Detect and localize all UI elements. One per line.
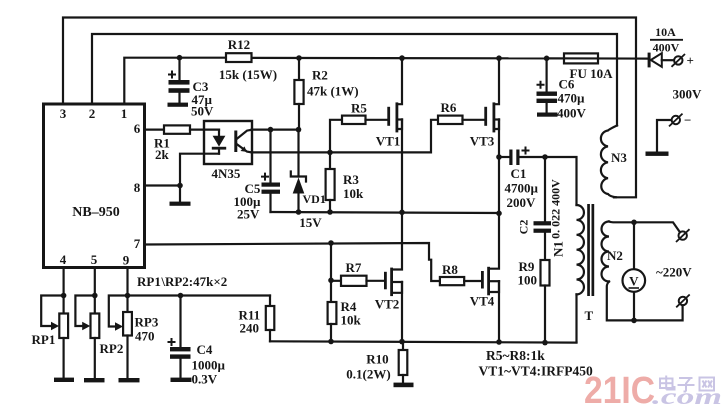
svg-text:C4: C4 [197,342,213,357]
svg-text:C2: C2 [517,220,531,235]
node pin9/RP3 wiper [125,293,131,299]
svg-text:10A: 10A [655,25,676,39]
ground at pin 8 [170,186,191,206]
potentiometer RP3 [109,296,132,379]
svg-text:R2: R2 [312,68,328,83]
resistor R6 [438,116,484,124]
ground bar under C3 [168,103,189,107]
potentiometer RP1 [41,296,68,378]
capacitor C5 [261,130,280,212]
node N2 top / voltmeter [631,220,637,226]
node pin4/RP1 wiper [61,293,67,299]
node rail/C6 junction [544,56,550,62]
svg-text:~220V: ~220V [656,265,692,280]
wire R1 to 4N35 LED anode [190,129,219,131]
node rail/VT2 source/R10 [399,339,405,345]
node C1 right / snubber [542,154,548,160]
watermark CJK dian [660,376,675,390]
node rail/R4 [328,339,334,345]
wire pin 6 to R1 [145,129,165,131]
svg-text:R10: R10 [366,352,388,367]
capacitor C2 [534,157,552,260]
MOSFET VT4 [481,213,499,341]
wire pin 5 [94,268,96,314]
node mid/VD1 [296,209,302,215]
svg-text:R5~R8:1k: R5~R8:1k [486,348,545,363]
resistor R2 [294,58,303,130]
wire 4N35 LED cathode to pin 8 [180,154,219,186]
svg-text:21IC: 21IC [584,370,655,412]
node rail/VT1 drain junction [399,55,405,61]
wire 4N35 emitter to gates of VT1/VT3 [252,120,439,153]
wire pin 9 [126,268,128,313]
svg-text:R5: R5 [351,101,367,116]
svg-text:470µ: 470µ [558,91,586,106]
diode VD output [648,53,674,68]
node rail/R2 junction [296,55,302,61]
ground bar RP1 [54,378,74,382]
wire - terminal to ground [657,120,672,152]
wire C1 to N1 top [545,157,577,205]
ground bar at - terminal [646,152,669,156]
svg-text:9: 9 [123,253,130,268]
wire bottom common rail [270,341,577,342]
node mid/VT3 source [496,211,502,217]
svg-text:0.3V: 0.3V [192,372,218,387]
svg-text:VT4: VT4 [470,294,495,309]
svg-text:R3: R3 [343,172,359,187]
resistor R9 [541,260,550,343]
ground bar under R10 [394,383,414,388]
svg-text:3: 3 [60,106,67,121]
svg-text:15V: 15V [299,215,322,230]
ground bar RP3 [119,378,140,382]
svg-text:100: 100 [518,273,538,288]
node pin5/RP2 wiper [92,293,98,299]
svg-text:15k (15W): 15k (15W) [219,67,277,82]
wire branch down to R7/R4 [330,243,332,280]
svg-text:4: 4 [60,252,67,267]
phototransistor inside 4N35 [234,130,251,153]
node N2 bottom / voltmeter [631,318,637,324]
svg-text:8: 8 [134,180,141,195]
svg-text:N1: N1 [551,241,566,257]
svg-text:470: 470 [135,329,155,344]
wire pin 8 [145,184,181,186]
IC U1 NB-950 [44,104,145,268]
svg-text:.com: .com [652,384,722,409]
capacitor C1 [499,147,545,166]
watermark CJK wang [700,378,715,391]
svg-text:C1: C1 [511,166,527,181]
node rail/R9 [542,340,548,346]
svg-text:50V: 50V [191,104,214,119]
capacitor C6 [537,58,558,112]
svg-text:NB–950: NB–950 [72,205,119,220]
winding N3 [601,126,617,198]
svg-text:VD1: VD1 [303,192,326,206]
node C1 left / VT3 source [496,154,502,160]
resistor R10 [399,342,408,383]
svg-text:47k (1W): 47k (1W) [307,84,359,99]
svg-text:10k: 10k [341,313,362,328]
svg-text:200V: 200V [507,195,537,210]
node R7/R4 junction [328,278,334,284]
wire pin 7 gate-drive line [145,243,441,281]
svg-text:V: V [629,274,639,289]
terminal AC output top [676,229,690,242]
wire pin9 node to C4/R11 [128,294,271,296]
wire pin 4 [62,268,64,314]
svg-text:−: − [684,113,691,128]
svg-text:7: 7 [134,236,141,251]
svg-text:400V: 400V [653,41,680,55]
label 10A / 400V [650,25,683,55]
terminal AC output bottom [676,295,690,308]
zener diode VD1 [291,130,306,212]
resistor R5 [330,116,388,153]
svg-text:T: T [585,308,594,323]
potentiometer RP2 [75,296,99,379]
resistor R3 [326,152,335,212]
node rail/VT4 source [496,339,502,345]
svg-text:2k: 2k [155,147,170,162]
resistor R1 [164,125,190,133]
resistor R7 [331,276,384,286]
MOSFET VT3 [484,58,499,213]
terminal + output [672,54,686,67]
svg-text:1000µ: 1000µ [192,358,226,373]
svg-text:FU 10A: FU 10A [570,66,614,81]
svg-text:300V: 300V [673,87,703,102]
node emitter/R5/R3 [327,150,333,156]
watermark CJK zi [678,378,695,392]
optocoupler U2 4N35 body [204,121,252,164]
voltmeter PV [623,222,646,320]
wire 4N35 collector node [252,129,299,131]
svg-text:4N35: 4N35 [212,166,241,181]
LED inside 4N35 [212,130,226,154]
svg-text:VT1~VT4:IRFP450: VT1~VT4:IRFP450 [479,364,594,379]
svg-text:RP3: RP3 [135,315,159,330]
node rail/VT3 drain junction [496,55,502,61]
svg-text:VT2: VT2 [375,297,400,312]
ground bar RP2 [84,378,105,382]
capacitor C4 [168,296,191,378]
ground bar under C6 [537,113,558,117]
node mid/R3 [327,209,333,215]
wire pin 2 loop to N3 top [92,34,617,126]
svg-text:RP1\RP2:47k×2: RP1\RP2:47k×2 [137,274,227,289]
ground bar under C4 [171,378,192,382]
svg-text:N2: N2 [607,248,623,263]
wire N2 top to output [609,222,680,232]
node mid/VT1 source [399,210,405,216]
svg-text:R12: R12 [228,37,250,52]
svg-text:240: 240 [240,321,260,336]
node collector/VD1/R2 [296,127,302,133]
wire +rail R12 to fuse [252,57,565,60]
resistor R12 [226,53,252,62]
svg-text:VT1: VT1 [376,134,401,149]
MOSFET VT2 [384,212,402,341]
svg-text:VT3: VT3 [470,134,495,149]
svg-text:4700µ: 4700µ [505,181,539,196]
resistor R11 [266,296,275,342]
svg-text:25V: 25V [237,207,260,222]
resistor R8 [440,277,481,285]
svg-text:C6: C6 [559,77,575,92]
MOSFET VT1 [387,58,402,212]
wire pin 3 top loop to right side [63,18,636,198]
svg-text:R7: R7 [346,260,362,275]
wire N2 bottom to output [607,282,683,321]
svg-text:1: 1 [121,106,128,121]
node collector/C5 [268,127,274,133]
svg-text:2: 2 [89,106,96,121]
node pin7 line / R7-R4 branch [328,240,334,246]
svg-text:400V: 400V [557,106,587,121]
terminal - output [669,114,683,127]
transformer winding N2 [602,222,609,282]
node pin8 junction [177,183,183,189]
wire bridge midpoint line [271,212,500,213]
svg-text:R6: R6 [441,100,457,115]
svg-text:+: + [687,53,694,68]
svg-text:RP1: RP1 [32,332,56,347]
transformer core [587,204,594,296]
resistor R4 [328,280,337,341]
svg-text:10k: 10k [343,186,364,201]
capacitor C3 [168,58,190,103]
svg-text:R8: R8 [442,262,458,277]
fuse FU 10A [547,53,648,63]
node C4 junction [178,293,184,299]
svg-text:N3: N3 [611,150,627,165]
svg-text:RP2: RP2 [100,341,124,356]
transformer T winding N1 [577,205,584,342]
wire pin 1 to +rail [124,58,226,104]
node rail/C3 junction [177,55,183,61]
svg-text:0. 022 400V: 0. 022 400V [549,179,563,239]
svg-text:0.1(2W): 0.1(2W) [346,367,390,382]
svg-text:6: 6 [134,121,141,136]
svg-text:5: 5 [91,252,98,267]
